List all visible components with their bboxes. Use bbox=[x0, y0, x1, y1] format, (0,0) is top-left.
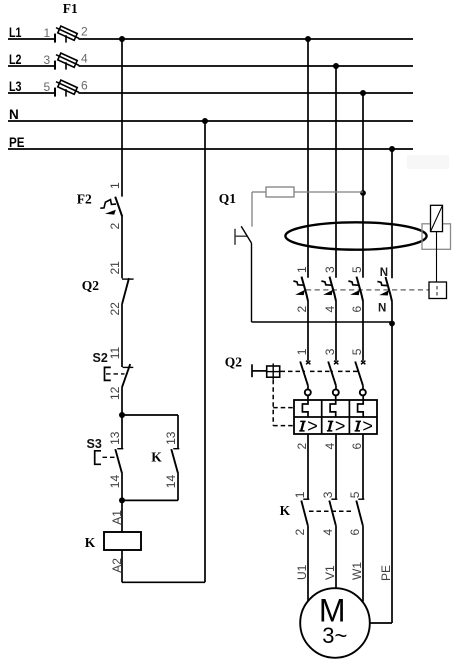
svg-text:3: 3 bbox=[323, 266, 337, 273]
svg-text:K: K bbox=[85, 535, 96, 550]
svg-text:6: 6 bbox=[348, 529, 362, 536]
svg-text:U1: U1 bbox=[295, 564, 309, 580]
svg-text:1: 1 bbox=[295, 348, 309, 355]
svg-text:F2: F2 bbox=[77, 192, 92, 207]
svg-text:W1: W1 bbox=[350, 562, 364, 580]
svg-text:13: 13 bbox=[164, 431, 178, 445]
svg-text:S3: S3 bbox=[87, 437, 102, 451]
svg-text:11: 11 bbox=[108, 347, 122, 360]
svg-text:F1: F1 bbox=[63, 1, 78, 16]
svg-text:2: 2 bbox=[293, 529, 307, 536]
svg-text:2: 2 bbox=[108, 223, 122, 230]
svg-text:5: 5 bbox=[44, 80, 51, 94]
svg-text:1: 1 bbox=[295, 266, 309, 273]
svg-text:N: N bbox=[378, 303, 386, 315]
svg-text:Q2: Q2 bbox=[82, 278, 100, 293]
svg-text:N: N bbox=[380, 267, 388, 279]
svg-text:Q2: Q2 bbox=[225, 355, 243, 370]
svg-text:A2: A2 bbox=[110, 558, 124, 573]
svg-text:K: K bbox=[151, 449, 162, 464]
svg-text:3: 3 bbox=[323, 348, 337, 355]
svg-text:L2: L2 bbox=[9, 52, 22, 67]
svg-text:5: 5 bbox=[350, 348, 364, 355]
svg-text:22: 22 bbox=[108, 302, 122, 316]
svg-text:4: 4 bbox=[323, 306, 337, 313]
svg-text:6: 6 bbox=[350, 306, 364, 313]
svg-text:V1: V1 bbox=[323, 565, 337, 580]
svg-text:2: 2 bbox=[295, 443, 309, 450]
svg-text:6: 6 bbox=[81, 79, 88, 93]
svg-text:1: 1 bbox=[44, 26, 51, 40]
svg-text:N: N bbox=[9, 107, 19, 122]
svg-text:PE: PE bbox=[9, 135, 25, 150]
svg-text:21: 21 bbox=[108, 261, 122, 275]
svg-text:Q1: Q1 bbox=[219, 191, 237, 206]
svg-text:1: 1 bbox=[293, 491, 307, 498]
svg-text:3: 3 bbox=[44, 53, 51, 67]
svg-text:A1: A1 bbox=[110, 510, 124, 525]
svg-text:13: 13 bbox=[108, 431, 122, 445]
svg-text:14: 14 bbox=[108, 475, 122, 489]
svg-text:>: > bbox=[362, 416, 373, 436]
svg-text:3~: 3~ bbox=[322, 623, 347, 648]
svg-text:5: 5 bbox=[350, 266, 364, 273]
svg-text:L1: L1 bbox=[9, 25, 22, 40]
svg-text:S2: S2 bbox=[93, 351, 108, 365]
svg-text:2: 2 bbox=[295, 306, 309, 313]
svg-text:>: > bbox=[335, 416, 346, 436]
svg-text:PE: PE bbox=[379, 565, 393, 581]
svg-text:12: 12 bbox=[108, 386, 122, 400]
svg-text:>: > bbox=[307, 416, 318, 436]
svg-text:1: 1 bbox=[108, 182, 122, 189]
svg-text:L3: L3 bbox=[9, 79, 22, 94]
svg-text:3: 3 bbox=[321, 491, 335, 498]
svg-text:6: 6 bbox=[350, 443, 364, 450]
svg-text:4: 4 bbox=[321, 529, 335, 536]
svg-text:14: 14 bbox=[164, 475, 178, 489]
svg-text:K: K bbox=[280, 503, 291, 518]
svg-text:2: 2 bbox=[81, 25, 88, 39]
svg-text:4: 4 bbox=[323, 443, 337, 450]
svg-text:4: 4 bbox=[81, 52, 88, 66]
svg-text:5: 5 bbox=[348, 491, 362, 498]
